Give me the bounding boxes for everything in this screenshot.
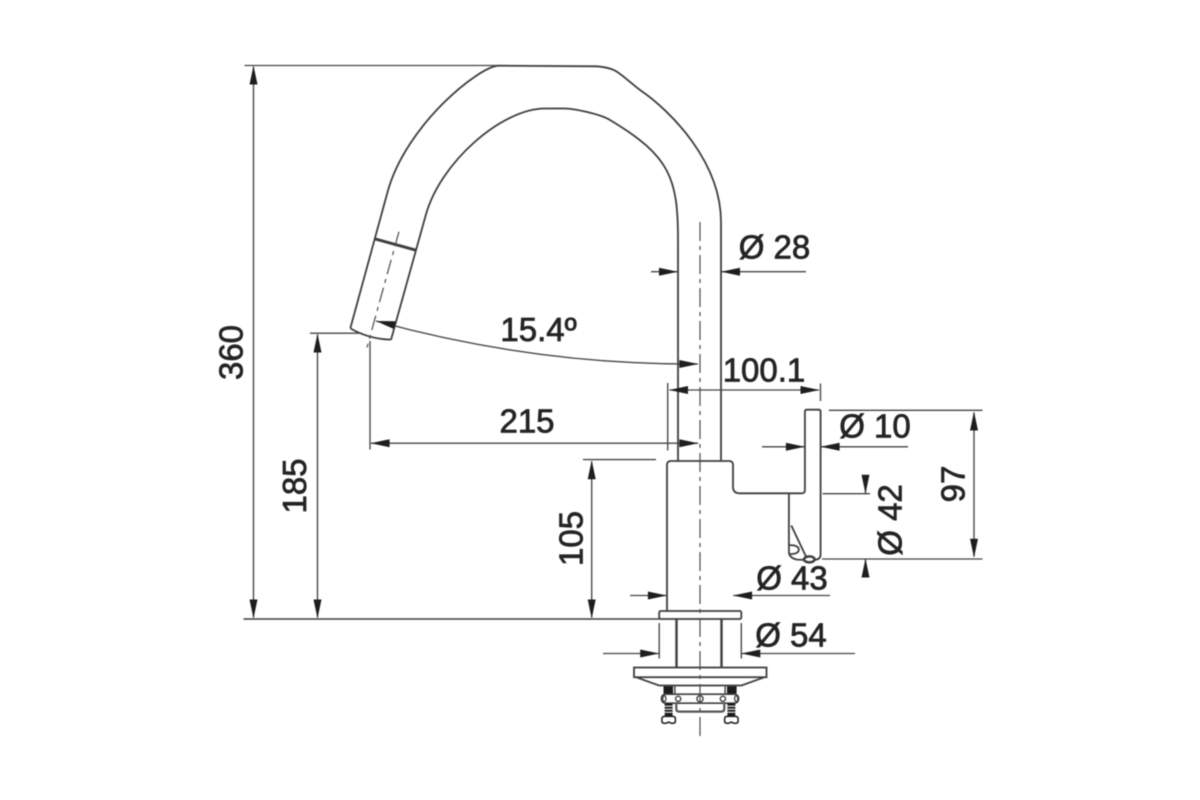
threaded shank bbox=[677, 620, 722, 668]
arrow 97 bottom bbox=[970, 539, 978, 558]
threaded studs below bar bbox=[665, 703, 736, 716]
dim 215 extension line at spout tip bbox=[369, 341, 371, 450]
dim 100.1 line bbox=[670, 389, 820, 391]
arrow dia54 left bbox=[640, 650, 659, 658]
spray head seam bbox=[375, 239, 417, 251]
countertop reference line bbox=[244, 618, 660, 620]
angle 15.4 arc bbox=[376, 321, 698, 364]
svg-text:185: 185 bbox=[276, 458, 313, 513]
arrow dia42 top bbox=[862, 475, 870, 494]
arrow 215 left bbox=[371, 439, 390, 447]
dim 185 line bbox=[317, 335, 319, 618]
arrow 105 bottom bbox=[588, 600, 596, 619]
dim 360 extension line top bbox=[245, 65, 500, 67]
svg-text:Ø 54: Ø 54 bbox=[755, 616, 827, 653]
arrow 15.4 arc right bbox=[679, 360, 698, 368]
mounting flange bbox=[659, 611, 741, 619]
spray head tip edge (slightly bulged) bbox=[351, 329, 391, 340]
dimension lines layer bbox=[244, 66, 983, 659]
arrow dia43 left bbox=[648, 592, 667, 600]
dim 105 line bbox=[591, 462, 593, 618]
dim dia28 lines bbox=[651, 271, 806, 273]
arrow 100.1 right bbox=[801, 386, 820, 394]
dim dia42 line bbox=[865, 476, 867, 578]
svg-text:105: 105 bbox=[553, 511, 590, 566]
dome nuts at stud ends bbox=[662, 716, 738, 723]
arrow dia10 right bbox=[821, 443, 840, 451]
arrow 15.4 arc left (angled) bbox=[376, 321, 396, 329]
dim 105 extension line bbox=[583, 459, 656, 461]
dim dia54 lines bbox=[603, 653, 855, 655]
arrow dia10 left bbox=[786, 443, 805, 451]
svg-text:15.4º: 15.4º bbox=[500, 311, 576, 348]
pipe centerline bbox=[699, 222, 701, 740]
arrow 215 right bbox=[679, 439, 698, 447]
dim dia54 extension lines bbox=[659, 623, 741, 659]
arrow 97 top bbox=[970, 412, 978, 431]
arrow 105 top bbox=[588, 460, 596, 479]
deck plate bbox=[634, 668, 767, 686]
centerlines bbox=[367, 222, 700, 740]
dim 100.1 extension lines bbox=[668, 383, 821, 451]
svg-text:97: 97 bbox=[935, 466, 972, 503]
arrow dia43 right bbox=[733, 592, 752, 600]
arrow dia28 left bbox=[659, 268, 678, 276]
svg-text:Ø 28: Ø 28 bbox=[739, 228, 811, 265]
text layer bbox=[213, 228, 972, 653]
svg-text:Ø 10: Ø 10 bbox=[839, 408, 911, 445]
dim dia10 lines bbox=[762, 446, 908, 448]
svg-text:215: 215 bbox=[499, 402, 554, 439]
svg-text:Ø 42: Ø 42 bbox=[872, 484, 909, 556]
spray head centerline bbox=[367, 232, 399, 348]
dim 215 line bbox=[371, 442, 698, 444]
faucet body and handle lever outline bbox=[667, 410, 821, 611]
arrow dia42 bottom bbox=[862, 559, 870, 578]
dim dia42 extension lines bbox=[822, 494, 983, 559]
arrow dia54 right bbox=[741, 650, 760, 658]
arrow 360 bottom bbox=[250, 600, 258, 619]
svg-text:360: 360 bbox=[213, 325, 250, 380]
valve housing right face bbox=[789, 494, 807, 560]
arrow 185 top bbox=[314, 334, 322, 353]
clamp bar bbox=[662, 694, 739, 703]
svg-text:Ø 43: Ø 43 bbox=[756, 559, 828, 596]
C channel bracket bbox=[675, 687, 725, 712]
black mounting nuts on studs bbox=[664, 686, 737, 693]
arrow 100.1 left bbox=[669, 386, 688, 394]
arrow dia28 right bbox=[721, 268, 740, 276]
dim 360 line bbox=[253, 67, 255, 618]
arrowheads layer bbox=[250, 66, 979, 658]
svg-text:100.1: 100.1 bbox=[723, 351, 806, 388]
arrow 360 top bbox=[250, 66, 258, 85]
dim 97 line bbox=[973, 413, 975, 557]
arrow 185 bottom bbox=[314, 600, 322, 619]
lever bottom cap ellipse bbox=[804, 556, 815, 562]
dim 97 extension line top bbox=[829, 409, 983, 411]
dim dia43 lines bbox=[630, 595, 830, 597]
faucet gooseneck spout tube outer and inner edge curves bbox=[350, 66, 721, 461]
dim 185 extension line bbox=[310, 332, 362, 334]
